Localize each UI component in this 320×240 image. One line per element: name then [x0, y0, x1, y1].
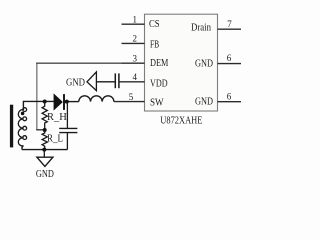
svg-text:SW: SW — [150, 96, 164, 108]
svg-text:GND: GND — [36, 169, 54, 180]
node junction diode cathode — [65, 100, 69, 104]
wire winding bottom to ground rail — [22, 146, 68, 150]
diode D1 — [54, 94, 64, 110]
wire C2 bottom to ground rail — [66, 133, 68, 150]
node junction divider tap — [43, 128, 47, 132]
svg-text:Drain: Drain — [191, 22, 211, 34]
wire cathode node down to C2 — [66, 102, 68, 129]
ground symbol bottom — [36, 150, 54, 180]
svg-text:4: 4 — [133, 72, 138, 82]
capacitor C2 plates — [59, 128, 77, 132]
wire diode cathode to inductor — [65, 101, 79, 103]
svg-text:1: 1 — [133, 14, 138, 24]
pin 3 wire DEM — [122, 53, 169, 69]
resistor R_H — [42, 102, 67, 130]
svg-text:DEM: DEM — [150, 57, 169, 69]
pin 1 wire CS — [122, 14, 160, 30]
node junction R_H top — [43, 100, 47, 104]
svg-text:7: 7 — [227, 19, 232, 29]
wire winding top to diode — [23, 101, 54, 110]
svg-text:U872XAHE: U872XAHE — [160, 116, 202, 127]
svg-text:FB: FB — [150, 39, 159, 51]
capacitor C1 plates — [115, 73, 119, 88]
ground symbol VDD side — [66, 72, 115, 91]
resistor R_L — [42, 130, 63, 150]
svg-text:GND: GND — [195, 57, 213, 69]
inductor L1 — [79, 96, 114, 102]
pin 6 wire GND upper — [195, 53, 241, 69]
pin 6 wire GND lower — [195, 91, 241, 107]
svg-text:CS: CS — [149, 18, 160, 30]
svg-text:R_H: R_H — [47, 112, 67, 123]
svg-text:VDD: VDD — [150, 77, 168, 89]
svg-text:GND: GND — [66, 77, 85, 88]
pin 7 wire Drain — [191, 19, 241, 34]
transformer T1 core — [10, 105, 13, 148]
pin 2 wire FB — [122, 34, 160, 51]
svg-text:3: 3 — [133, 53, 138, 63]
svg-text:6: 6 — [227, 53, 232, 63]
svg-text:2: 2 — [133, 34, 138, 44]
transformer T1 winding — [18, 108, 26, 146]
svg-text:5: 5 — [129, 92, 134, 102]
wire DEM to divider tap — [36, 129, 45, 131]
pin 4 wire VDD — [119, 72, 168, 89]
svg-text:6: 6 — [227, 91, 232, 101]
svg-text:R_L: R_L — [47, 134, 63, 145]
pin 5 wire SW — [114, 92, 164, 109]
svg-text:GND: GND — [195, 95, 213, 107]
wire DEM net horizontal to pin 3 — [36, 62, 122, 64]
node junction ground rail — [42, 148, 46, 152]
op-amp U1 U872XAHE body — [145, 14, 218, 126]
transformer phase dot — [21, 112, 25, 116]
wire DEM net vertical — [36, 63, 38, 129]
